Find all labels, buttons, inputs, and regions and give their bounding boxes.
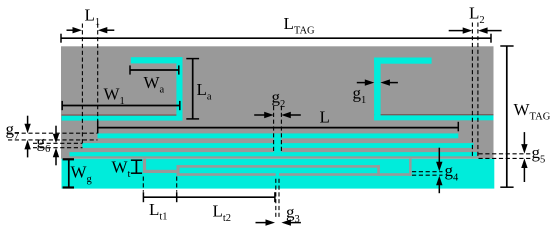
left arm bottom bar dark top edge — [62, 115, 183, 116]
right arm trace: bottom horizontal bar — [374, 114, 493, 120]
dimension line Lt1 / Lt2 — [143, 196, 275, 198]
svg-text:g5: g5 — [532, 143, 546, 166]
dimension line L_TAG — [61, 37, 491, 39]
g7 arrows — [24, 124, 30, 134]
g3 dashed extension lines — [275, 179, 277, 219]
g3 arrows — [266, 219, 276, 225]
g6 dashed extension lines — [33, 142, 83, 144]
dimension line Wa — [130, 69, 179, 71]
svg-text:g7: g7 — [6, 120, 20, 143]
svg-text:Lt2: Lt2 — [213, 202, 232, 225]
strip B - middle coupled strip — [82, 143, 473, 148]
ground slot ring: left edge — [177, 165, 180, 176]
left arm trace: bottom horizontal bar — [62, 115, 183, 121]
ground slot: right vertical exit cut — [409, 159, 412, 176]
L1 arrows — [73, 27, 83, 33]
dimension bracket Wt — [135, 160, 137, 173]
g2 vertical bridge connecting strips — [274, 138, 281, 153]
ground slot: vertical entry cut — [143, 159, 146, 173]
substrate (gray dielectric board) — [61, 46, 494, 159]
svg-text:Lt1: Lt1 — [149, 200, 168, 223]
dimension line W_TAG — [506, 46, 508, 187]
g5 arrows — [521, 144, 527, 154]
g4 arrows — [436, 162, 442, 172]
Lt1 dashed extension lines — [142, 177, 144, 192]
L1 dashed extension lines — [81, 24, 83, 144]
svg-text:L1: L1 — [85, 6, 101, 29]
strip C - lower coupled strip — [70, 152, 478, 156]
ground plane (bottom copper) — [62, 159, 495, 189]
svg-text:WTAG: WTAG — [514, 100, 550, 123]
svg-text:LTAG: LTAG — [284, 14, 316, 37]
svg-text:L2: L2 — [469, 4, 485, 27]
dimension line La — [192, 59, 194, 119]
right arm bottom bar dark top edge — [374, 114, 493, 115]
g1 arrows — [365, 79, 375, 85]
ground slot ring: bottom edge right of g3 bridge — [279, 173, 412, 176]
g2 dashed extension lines — [273, 106, 275, 152]
L2 arrows — [463, 27, 473, 33]
dimension line L — [98, 127, 459, 129]
L2 dashed extension lines — [471, 23, 473, 159]
g2 arrows — [264, 112, 274, 118]
svg-text:g6: g6 — [37, 133, 51, 156]
g5 dashed extension lines — [479, 153, 532, 155]
g7 dashed extension lines — [8, 132, 98, 134]
left arm trace: vertical bar — [176, 57, 182, 120]
left arm trace: top horizontal bar Wa — [131, 57, 183, 63]
strip A - microstrip line L — [98, 133, 459, 138]
dimension line W1 — [62, 105, 180, 107]
g4 dashed extension lines — [412, 171, 443, 173]
right arm trace: top horizontal bar — [374, 58, 432, 64]
ground slot ring: top edge — [177, 165, 380, 168]
g6 arrows — [53, 134, 59, 144]
ground slot ring: bottom edge left of g3 bridge — [177, 173, 276, 176]
right arm trace: vertical bar g1 — [374, 58, 381, 121]
dimension bracket Wg — [68, 160, 70, 188]
ground slot: horizontal feed slot Lt1 — [143, 170, 177, 173]
ground slot ring: right edge — [377, 165, 380, 176]
svg-text:L: L — [320, 108, 330, 127]
